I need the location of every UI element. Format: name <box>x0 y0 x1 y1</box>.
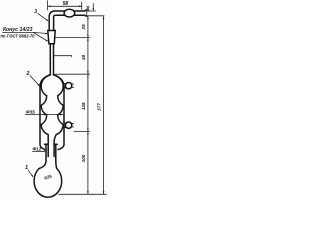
dimension 377 <box>103 16 105 194</box>
svg-text:38: 38 <box>81 55 86 61</box>
vertical dimension chain 25/38/128/100 <box>87 16 89 194</box>
svg-text:100: 100 <box>81 154 86 162</box>
water nipple 1 <box>64 83 66 88</box>
svg-text:Ф35: Ф35 <box>26 110 35 115</box>
svg-text:377: 377 <box>96 103 101 111</box>
svg-text:по ГОСТ 8682-70: по ГОСТ 8682-70 <box>1 33 36 38</box>
svg-text:128: 128 <box>81 102 86 110</box>
flask item 1 <box>34 169 62 198</box>
dimension extension lines <box>48 1 107 195</box>
dimension 58 <box>48 5 82 7</box>
svg-text:2: 2 <box>26 71 30 77</box>
dimension F12 <box>32 151 45 152</box>
condenser jacket item 2 <box>40 75 64 150</box>
water nipple 2 <box>64 123 66 128</box>
svg-text:Ф6: Ф6 <box>86 5 91 11</box>
svg-text:Ф12: Ф12 <box>32 147 41 152</box>
flask neck socket <box>39 144 57 168</box>
tube between cone and condenser <box>50 44 53 75</box>
dimension F35 <box>25 114 63 116</box>
svg-text:58: 58 <box>63 1 69 7</box>
svg-text:1: 1 <box>25 165 28 171</box>
hose olive on outlet tube <box>64 9 75 17</box>
svg-text:3: 3 <box>34 9 37 15</box>
ground glass cone 14/23 <box>48 31 55 44</box>
bent outlet tube 3 <box>49 10 87 31</box>
dimension d6 <box>92 3 94 10</box>
bulb chain of condenser <box>41 75 63 157</box>
svg-text:25: 25 <box>81 24 86 31</box>
